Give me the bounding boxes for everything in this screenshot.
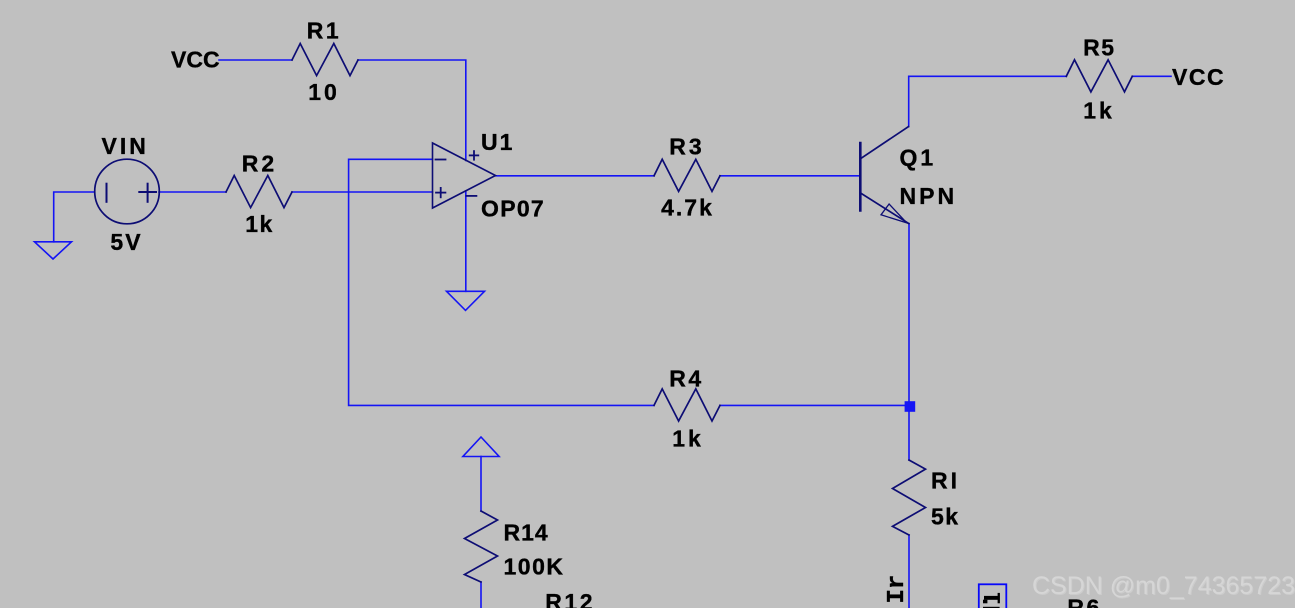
svg-text:R3: R3	[669, 134, 704, 160]
svg-text:1k: 1k	[672, 426, 704, 452]
svg-text:4.7k: 4.7k	[661, 195, 714, 221]
svg-text:RI: RI	[931, 468, 960, 494]
svg-text:R14: R14	[504, 520, 549, 546]
svg-text:VCC: VCC	[171, 47, 220, 73]
svg-text:R4: R4	[669, 366, 703, 392]
svg-text:R1: R1	[307, 18, 341, 44]
svg-text:NPN: NPN	[900, 183, 958, 209]
svg-text:R12: R12	[545, 589, 595, 608]
svg-text:VCC: VCC	[1172, 64, 1225, 90]
svg-text:10: 10	[308, 79, 340, 105]
svg-text:VIN: VIN	[102, 133, 149, 159]
svg-text:1k: 1k	[1083, 98, 1115, 124]
svg-text:R5: R5	[1083, 34, 1115, 60]
svg-text:OP07: OP07	[481, 196, 545, 222]
svg-text:Ir: Ir	[884, 575, 911, 604]
svg-text:Q1: Q1	[900, 145, 937, 171]
svg-text:1k: 1k	[245, 211, 274, 237]
svg-text:U1: U1	[481, 129, 514, 155]
svg-text:R2: R2	[242, 150, 277, 176]
svg-text:100K: 100K	[504, 554, 565, 580]
svg-text:5V: 5V	[110, 229, 142, 255]
svg-text:5k: 5k	[931, 504, 960, 530]
svg-text:CSDN @m0_74365723: CSDN @m0_74365723	[1032, 572, 1295, 600]
